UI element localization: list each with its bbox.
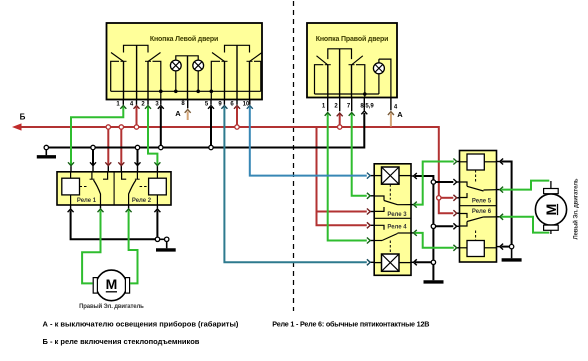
junction: pin3 column on S1 bus (159, 90, 163, 94)
ground symbol at left ground bus (37, 150, 56, 157)
svg-text:Реле 6: Реле 6 (472, 209, 492, 215)
wire: red feed to K2 contact (120, 129, 122, 165)
arrowheads: K3/K4 left pins (370, 176, 374, 263)
wire: S1 pin10 blue to K3 coil (250, 107, 367, 176)
relay K1 coil (62, 172, 89, 205)
wire: red branch to K5 contact (439, 197, 454, 199)
wire: branch to K6 coil return (501, 246, 509, 248)
wire: main red supply bus from Б to K5/K6 contacts (20, 127, 453, 213)
svg-text:Правый Эл. двигатель: Правый Эл. двигатель (79, 303, 144, 310)
arrowheads: K5/K6 left pins (456, 162, 459, 248)
relay K6 coil (460, 231, 497, 257)
svg-text:Реле 1 - Реле 6: обычные пятик: Реле 1 - Реле 6: обычные пятиконтактные … (272, 319, 429, 328)
junction: ground link (165, 237, 169, 241)
wire: K6 output green to motor M2 bottom brush (501, 217, 549, 233)
switch contact S2b (pin 7) (349, 56, 365, 98)
junction: ground bus at S1 pin5 (209, 145, 213, 149)
junction: ground bus at S1 pin3 (159, 145, 163, 149)
switch contact S1a (pin 1) (111, 53, 127, 100)
wire: branch ground bus to K5 pole (436, 181, 454, 183)
ground symbol at K3/K4 bus (424, 280, 444, 283)
svg-text:А: А (397, 110, 403, 119)
svg-text:Б: Б (20, 113, 26, 122)
wire: S1 pin1 green to K1 coil (71, 107, 123, 165)
wire: S2 pin7 green to K3 contact (352, 114, 367, 196)
wire: S1 internal ground bus (111, 90, 261, 92)
switch contact S1d (pin 10) (247, 53, 263, 100)
wire: S2 pin4 tan stub (to А) (390, 114, 392, 127)
switch contact S2a (pin 1) (315, 56, 331, 98)
wire: S1 pin2 green to K2 coil (148, 107, 157, 165)
wire: S2 top bracket (pins 1-7) (328, 49, 352, 59)
junction: ground bus at K4 coil (431, 260, 435, 264)
svg-text:Кнопка Левой двери: Кнопка Левой двери (150, 35, 218, 43)
wire: dashed divider line between left/right door sections (293, 1, 295, 311)
relay K3 coil (X box) (374, 167, 411, 200)
motor M2: Левый Эл. двигатель (535, 181, 566, 234)
junction: ground bus at K2 pole tap (135, 145, 139, 149)
switch contact S1b (pin 2) (145, 53, 161, 100)
wire: red feed to K1 contact (107, 129, 109, 165)
wire: S1 pin8 tan stub (to А) (187, 112, 189, 121)
node Б: feed from window-lift relay (red arrow left) (12, 113, 26, 131)
wire: S2 pin4 lamp feed bracket (379, 59, 391, 97)
arrowheads: K3/K4 right pins (411, 176, 414, 262)
svg-text:8,5,9: 8,5,9 (360, 104, 374, 110)
switch unit S1: Кнопка Левой двери (left door button box) (107, 23, 263, 100)
wire: branch ground bus to K6 pole (436, 225, 454, 227)
relay block K3/K4 (Реле 3, Реле 4) (374, 164, 411, 275)
junction: red feed branch at K5 (437, 196, 441, 200)
wire: S1 pin8 lamp feed column (187, 56, 189, 100)
relay block K1/K2 (Реле 1, Реле 2) (57, 172, 171, 205)
wire: K3 output green to K5 coil (415, 162, 454, 205)
wire: K4 output green to K6 coil (415, 233, 454, 248)
relay K4 coil (X box) (374, 241, 411, 272)
wire: S1 pin4 to red bus (136, 107, 138, 125)
wire: branch ground bus to K4 coil (415, 261, 431, 263)
relay K5 contact (460, 182, 497, 198)
wire: black ground bus (S2 pin 8,5,9 to left ground) (46, 113, 364, 148)
wire: K5/K6 coil return bus to ground (501, 162, 511, 247)
wire: S2 internal ground bus (315, 93, 379, 95)
svg-text:Кнопка Правой двери: Кнопка Правой двери (316, 35, 389, 43)
ground symbol at K5/K6 return bus (502, 249, 522, 260)
junction: pin5 column on S1 bus (210, 90, 214, 94)
junction: ground bus at K1 pole tap (91, 145, 95, 149)
wire: S2 pin2 to red bus (339, 114, 341, 125)
pin stubs below S2 (328, 98, 391, 112)
lamp HL3 (right door illumination lamp) (373, 59, 384, 94)
junction: red bus at K2 feed (119, 125, 123, 129)
junction: red bus at S1 pin4 (134, 125, 138, 129)
wire: K5 output green to motor M2 top brush (501, 181, 549, 190)
lamp HL1 (left illumination lamp) (170, 56, 198, 93)
svg-text:М: М (106, 276, 118, 292)
wire: red tap to K3/K4 contacts (317, 128, 367, 225)
svg-text:Реле 4: Реле 4 (387, 225, 407, 231)
switch contact S1c (pin 9) (211, 53, 227, 100)
wire: S1 top bracket pair 2 (pins 9-10) (225, 45, 250, 52)
junction: red bus at S1 pin6 (235, 125, 239, 129)
switch unit S2: Кнопка Правой двери (right door button box) (307, 23, 397, 98)
svg-text:А - к выключателю освещения пр: А - к выключателю освещения приборов (га… (43, 319, 239, 328)
wire: ground bus tap to K2 pole (137, 150, 139, 165)
relay K5 coil (460, 154, 497, 182)
lamp HL2 (right illumination lamp) (193, 60, 204, 93)
junction: right return bus at K6 coil (509, 244, 513, 248)
wire: ground bus tap to K1 pole (92, 150, 94, 165)
arrowheads: K1/K2 top pins (71, 165, 157, 172)
wire: K2 output green to motor M1 right brush (129, 210, 138, 283)
wire: S1 pin5 to ground bus (210, 107, 212, 148)
junction: red bus at S2 pin2 (338, 125, 342, 129)
relay K6 contact (460, 214, 497, 227)
svg-text:Реле 2: Реле 2 (132, 198, 152, 204)
arrowheads: K1/K2 bottom pins (71, 205, 158, 209)
label: Левый Эл. двигатель (vertical) (573, 178, 580, 239)
arrowheads: K5/K6 right pins (497, 162, 500, 247)
svg-text:Реле 5: Реле 5 (472, 199, 492, 205)
junction: ground bus at K5 pole (431, 180, 435, 184)
junction: K2 common at ground link (155, 237, 159, 241)
relay block K5/K6 (Реле 5, Реле 6) (460, 151, 497, 263)
relay K2 coil (140, 172, 167, 205)
junction: pin 8,5,9 column on S2 bus (363, 92, 367, 96)
wire: S1 pin6 column (236, 45, 238, 99)
pin numbers of S2 (322, 104, 398, 111)
wire: S1 top bracket pair 1 (pins 1-2) (124, 45, 149, 52)
wire: K1/K2 bottom common to ground (71, 210, 165, 239)
wire: S1 pin3 to ground bus (160, 107, 162, 148)
wire: S2 pin2 column (339, 49, 341, 98)
wire: K3/K4 coil common ground bus (415, 176, 433, 280)
junction: red bus at K1 feed (106, 125, 110, 129)
svg-text:М: М (543, 204, 559, 216)
pin stubs below S1 (123, 100, 250, 109)
arrowheads: S1 pins (120, 106, 253, 113)
arrowheads: S2 pins (325, 111, 394, 116)
junction: left end of ground bus (44, 145, 48, 149)
wire: K1 output green to motor M1 left brush (82, 210, 100, 283)
svg-text:Б - к реле включения стеклопод: Б - к реле включения стеклоподъемников (43, 337, 200, 346)
ground symbol at relay K1/K2 (156, 242, 176, 250)
svg-text:А: А (175, 109, 181, 118)
svg-text:Левый Эл. двигатель: Левый Эл. двигатель (573, 178, 580, 239)
wire: S1 pin4 column (136, 45, 138, 99)
junction: ground bus at K6 pole (431, 224, 435, 228)
wire: S1 pin6 to red bus (236, 107, 238, 125)
svg-text:Реле 1: Реле 1 (77, 198, 97, 204)
pin numbers of S1 (116, 101, 250, 108)
svg-text:Реле 3: Реле 3 (387, 212, 407, 218)
motor M1: Правый Эл. двигатель (93, 270, 129, 301)
relay K3 contact (374, 196, 411, 211)
relay K2 contact (122, 172, 140, 205)
relay K4 contact (374, 225, 411, 240)
wire: S1 pin9 blue to K4 coil (224, 107, 366, 262)
relay K1 contact (90, 172, 108, 205)
wire: S2 pin1 green to K4 contact (328, 114, 367, 241)
